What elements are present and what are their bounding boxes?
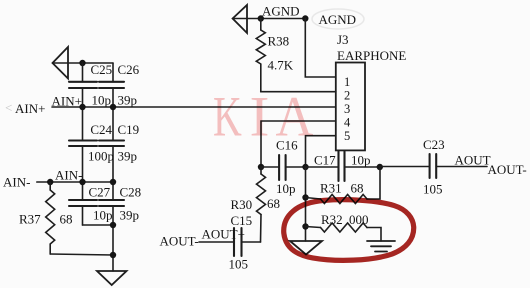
ground flag G1 (top left) [53, 47, 69, 79]
svg-text:AIN+: AIN+ [15, 101, 45, 116]
node AGND / pin1 wire [302, 15, 308, 21]
svg-text:AOUT+: AOUT+ [202, 227, 245, 242]
svg-text:68: 68 [60, 212, 73, 227]
svg-text:C24: C24 [90, 122, 112, 137]
svg-text:39p: 39p [120, 208, 140, 223]
wire V1 column [82, 63, 84, 82]
ground triangle (mid) [290, 241, 322, 255]
svg-text:000: 000 [349, 212, 369, 227]
svg-text:AIN-: AIN- [55, 168, 82, 183]
svg-text:C26: C26 [118, 62, 140, 77]
svg-text:AOUT: AOUT [455, 153, 491, 168]
wire mid vertical (pin5 node down to ground) [305, 167, 307, 241]
svg-text:5: 5 [344, 129, 350, 143]
connector J3 body [336, 63, 365, 151]
svg-text:10p: 10p [92, 93, 112, 108]
wire C23 left [380, 166, 430, 168]
node R32 left [302, 223, 308, 229]
svg-text:100p: 100p [88, 149, 114, 164]
svg-text:4.7K: 4.7K [268, 58, 294, 73]
svg-text:AGND: AGND [262, 4, 300, 19]
svg-text:R37: R37 [19, 212, 41, 227]
svg-text:68: 68 [267, 196, 280, 211]
capacitor C17 plates [339, 152, 345, 182]
svg-text:K: K [213, 85, 242, 149]
svg-text:105: 105 [229, 257, 249, 272]
svg-text:EARPHONE: EARPHONE [337, 48, 406, 63]
resistor R30 [260, 167, 262, 174]
node jumper / V2 [110, 222, 116, 228]
wire C23 right to AOUT- [436, 166, 487, 168]
capacitor C23 plates [430, 154, 437, 178]
svg-text:4: 4 [344, 116, 351, 130]
resistor R37 [49, 182, 51, 190]
resistor R32 [306, 227, 321, 228]
svg-text:AGND: AGND [319, 12, 357, 27]
svg-text:AIN-: AIN- [3, 175, 30, 190]
svg-text:C17: C17 [314, 153, 336, 168]
svg-text:R31: R31 [320, 181, 342, 196]
svg-text:C25: C25 [91, 62, 113, 77]
capacitor C28 plates [99, 200, 124, 206]
svg-text:105: 105 [423, 182, 443, 197]
svg-text:C27: C27 [89, 185, 111, 200]
svg-text:2: 2 [344, 89, 350, 103]
svg-text:10p: 10p [276, 181, 296, 196]
svg-text:68: 68 [351, 181, 364, 196]
svg-text:I: I [250, 85, 270, 148]
wire C16 left [261, 166, 279, 168]
node top of V1 [79, 60, 85, 66]
svg-text:R30: R30 [231, 197, 253, 212]
node bottom / V2 [110, 252, 116, 258]
svg-text:AOUT-: AOUT- [160, 234, 199, 249]
svg-text:C28: C28 [120, 185, 142, 200]
wire jumper V1 to V2 [83, 224, 114, 226]
wire R38 to pin2 [261, 91, 336, 93]
ground triangle (left ladder bottom) [97, 271, 127, 285]
ground flag G2 (AGND) [233, 5, 247, 33]
node AIN- / V2 [110, 179, 116, 185]
svg-text:<: < [5, 100, 12, 115]
earth ground (R32 right) [367, 241, 395, 252]
svg-text:3: 3 [344, 102, 350, 116]
resistor R31 [306, 198, 321, 200]
svg-text:1: 1 [344, 75, 350, 89]
wire C16 right [286, 166, 306, 168]
watermark KIA [213, 85, 314, 149]
node R31 left [302, 194, 308, 200]
svg-text:R38: R38 [268, 34, 290, 49]
node AIN- / R37 [47, 179, 53, 185]
svg-text:39p: 39p [118, 149, 138, 164]
capacitor C19 plates [99, 141, 124, 147]
capacitor C25 plates [69, 82, 97, 88]
capacitor C24 plates [69, 141, 97, 147]
wire AIN+ net (to pin 3) [52, 106, 336, 108]
wire C17 right [345, 166, 380, 168]
node C17/R31/C23 [377, 164, 383, 170]
node C16/C17/pin5 [302, 164, 308, 170]
wire AOUT+ net [199, 241, 234, 243]
svg-text:C19: C19 [118, 122, 140, 137]
svg-text:J3: J3 [337, 32, 349, 47]
svg-text:10p: 10p [93, 208, 113, 223]
svg-text:AOUT-: AOUT- [488, 162, 527, 177]
node AIN+ / V2 [110, 104, 116, 110]
svg-text:C23: C23 [423, 137, 445, 152]
wire ground to ladder top [53, 62, 114, 64]
capacitor C15 plates [234, 228, 242, 256]
capacitor C27 plates [69, 200, 97, 206]
node AGND / R38 [258, 15, 264, 21]
wire pin4 [261, 121, 336, 167]
svg-text:A: A [276, 85, 314, 148]
wire R37 bottom to V2 [50, 254, 113, 255]
svg-text:AIN+: AIN+ [52, 94, 82, 109]
wire AIN- net [37, 181, 113, 183]
annotation red ellipse around R32 [282, 197, 414, 264]
svg-text:10p: 10p [351, 153, 371, 168]
capacitor C26 plates [99, 82, 124, 88]
svg-text:R32: R32 [321, 212, 343, 227]
wire V2 column [112, 63, 114, 82]
svg-text:39p: 39p [118, 93, 138, 108]
wire AGND to pin1 [305, 19, 336, 78]
wire AGND net [233, 18, 306, 20]
resistor R38 [260, 19, 262, 31]
capacitor C16 plates [279, 155, 286, 180]
node AIN- / V1 [79, 179, 85, 185]
wire pin5 [306, 136, 336, 167]
wire C17 left [306, 166, 339, 168]
halo around AGND label [312, 9, 364, 29]
node AIN+ / V1 [79, 104, 85, 110]
node C16 left / R30 / pin4 [258, 164, 264, 170]
